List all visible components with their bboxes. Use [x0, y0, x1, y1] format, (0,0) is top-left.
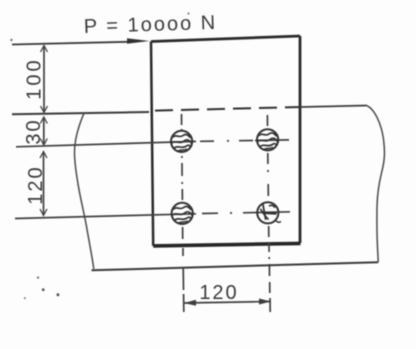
bracket plate outline	[151, 36, 300, 42]
arrow down 120	[40, 209, 47, 216]
left dimension line seg 120	[43, 152, 45, 216]
force arrowhead	[127, 38, 150, 43]
bolt top-left	[171, 131, 192, 152]
beam top edge hidden (dashed behind plate)	[155, 107, 301, 111]
svg-text:30: 30	[23, 118, 45, 144]
bolt bottom-left	[172, 203, 193, 224]
svg-text:100: 100	[24, 57, 46, 99]
centerline top bolt row	[16, 141, 196, 146]
bottom dimension line 120	[184, 302, 271, 304]
bolt top-right	[257, 129, 278, 150]
arrow up 100	[41, 46, 48, 53]
centerline right bolt column	[267, 115, 270, 312]
arrow down 30	[40, 139, 47, 146]
bottom arrow left	[184, 300, 196, 306]
arrow down 100	[41, 106, 48, 113]
centerline left bolt column	[182, 114, 184, 312]
beam top edge right (solid)	[301, 106, 367, 108]
left dimension line seg 30	[43, 118, 45, 145]
beam top edge left (solid)	[12, 112, 149, 114]
svg-text:120: 120	[199, 282, 238, 304]
beam bottom edge	[92, 262, 379, 270]
force arrow line P	[12, 42, 128, 45]
arrow up 120	[40, 152, 47, 159]
arrow up 30	[40, 117, 47, 124]
left dimension line seg 100	[43, 46, 45, 112]
beam right break line	[367, 106, 384, 263]
bottom arrow right	[259, 299, 271, 305]
svg-text:P = 1oooo N: P = 1oooo N	[83, 12, 217, 38]
svg-text:120: 120	[25, 165, 47, 204]
bolt bottom-right	[257, 202, 281, 223]
centerline bottom bolt row	[15, 214, 196, 219]
ink specks	[37, 277, 39, 279]
beam left break line	[75, 113, 94, 269]
